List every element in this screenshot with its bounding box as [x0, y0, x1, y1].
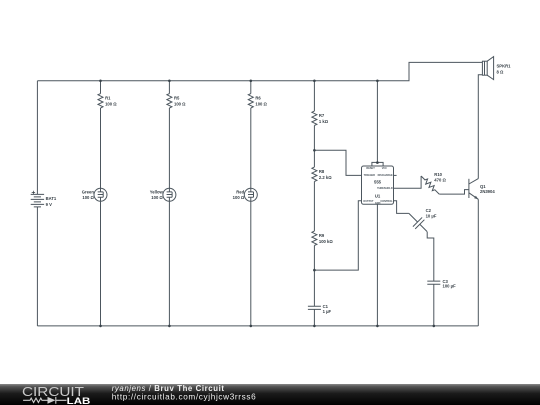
svg-text:RESET: RESET	[366, 167, 375, 170]
svg-text:Q1: Q1	[480, 184, 486, 189]
svg-text:9 V: 9 V	[46, 202, 52, 207]
svg-text:100 Ω: 100 Ω	[233, 195, 245, 200]
resistor R5	[167, 81, 186, 108]
svg-text:Red: Red	[236, 189, 244, 194]
wire R7 to R8 with node	[313, 126, 315, 168]
svg-text:100 Ω: 100 Ω	[174, 101, 186, 106]
wire trigger	[314, 150, 361, 175]
svg-text:100 Ω: 100 Ω	[82, 195, 94, 200]
lamp Red	[233, 108, 258, 326]
wire R10 to base	[439, 190, 469, 195]
pin discharge stub	[394, 174, 397, 176]
node 555 top	[376, 161, 379, 164]
wire R8 to R9	[313, 182, 315, 232]
svg-text:Green: Green	[82, 189, 95, 194]
battery BAT1	[31, 81, 57, 326]
svg-text:2.2 kΩ: 2.2 kΩ	[319, 175, 332, 180]
svg-text:LAB: LAB	[67, 396, 91, 405]
svg-text:2N3904: 2N3904	[480, 189, 495, 194]
svg-text:R8: R8	[319, 169, 325, 174]
svg-text:555: 555	[374, 179, 382, 184]
svg-text:470 Ω: 470 Ω	[434, 178, 446, 183]
svg-text:R10: R10	[434, 172, 442, 177]
capacitor C3	[427, 279, 456, 326]
resistor R9	[312, 231, 333, 245]
svg-text:http://circuitlab.com/cyjhjcw3: http://circuitlab.com/cyjhjcw3rrss6	[112, 393, 257, 402]
lamp Green	[82, 108, 107, 326]
CircuitLab logo	[22, 384, 90, 405]
node bottom rail junctions	[99, 325, 435, 328]
resistor R7	[312, 81, 329, 126]
capacitor C2	[404, 208, 437, 236]
wire bottom rail	[37, 325, 478, 327]
wire control	[394, 201, 409, 214]
svg-text:R1: R1	[105, 95, 111, 100]
resistor R8	[312, 167, 332, 181]
svg-text:100 Ω: 100 Ω	[151, 195, 163, 200]
resistor R10	[419, 172, 446, 196]
svg-text:1 kΩ: 1 kΩ	[319, 119, 329, 124]
svg-text:100 Ω: 100 Ω	[255, 101, 267, 106]
wire 555 vcc/reset to rail	[376, 81, 378, 163]
svg-text:TRIGGER: TRIGGER	[364, 174, 376, 177]
svg-text:100 Ω: 100 Ω	[105, 101, 117, 106]
svg-text:OUTPUT: OUTPUT	[363, 200, 374, 203]
wire C2 to C3	[427, 232, 434, 281]
svg-text:U1: U1	[375, 193, 381, 198]
svg-text:BAT1: BAT1	[46, 196, 57, 201]
resistor R1	[98, 81, 117, 108]
svg-text:1 µF: 1 µF	[323, 309, 332, 314]
wire output to node	[314, 201, 361, 270]
svg-text:Yellow: Yellow	[150, 189, 164, 194]
speaker SPKR1	[482, 57, 511, 80]
wire R9 to C1	[313, 246, 315, 307]
svg-text:THRESHOLD: THRESHOLD	[377, 187, 393, 190]
op-amp U1 555 timer	[362, 162, 394, 205]
node output junction	[313, 269, 316, 272]
resistor R6	[248, 81, 267, 108]
svg-text:10 µF: 10 µF	[426, 214, 437, 219]
svg-text:VCC: VCC	[382, 167, 387, 170]
wire 555 gnd	[376, 204, 378, 326]
transistor Q1	[469, 179, 495, 200]
svg-text:R5: R5	[174, 95, 180, 100]
svg-text:ryanjens / Bruv The Circuit: ryanjens / Bruv The Circuit	[112, 384, 225, 393]
lamp Yellow	[150, 108, 176, 326]
svg-text:CONTROL: CONTROL	[380, 200, 393, 203]
svg-text:R7: R7	[319, 113, 325, 118]
svg-text:R9: R9	[319, 233, 325, 238]
svg-text:100 kΩ: 100 kΩ	[319, 239, 333, 244]
wire top rail	[37, 62, 482, 80]
capacitor C1	[308, 304, 332, 326]
wire threshold	[394, 176, 422, 188]
wire collector to speaker	[478, 75, 482, 179]
svg-text:100 µF: 100 µF	[443, 284, 457, 289]
node top rail junctions	[99, 80, 379, 83]
svg-text:DISCHARGE: DISCHARGE	[378, 174, 393, 177]
svg-text:C2: C2	[426, 208, 432, 213]
node trigger junction	[313, 149, 316, 152]
wire emitter to bottom rail	[477, 199, 479, 326]
svg-text:8 Ω: 8 Ω	[497, 70, 504, 75]
svg-text:SPKR1: SPKR1	[497, 64, 512, 69]
svg-text:R6: R6	[255, 95, 261, 100]
